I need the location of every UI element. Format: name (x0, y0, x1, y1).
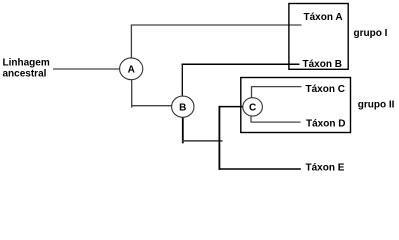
wire: bracket vertical (218, 106, 220, 170)
svg-text:ancestral: ancestral (3, 69, 47, 80)
group I box (289, 4, 348, 70)
wire: branch to Taxon A (131, 24, 302, 26)
svg-text:Táxon D: Táxon D (306, 119, 345, 130)
node C (243, 98, 263, 116)
svg-text:Táxon A: Táxon A (304, 12, 343, 23)
svg-text:B: B (179, 102, 186, 113)
svg-text:grupo I: grupo I (354, 28, 388, 39)
group II box (241, 78, 351, 133)
svg-text:Linhagem: Linhagem (3, 57, 50, 68)
wire: node B down (182, 117, 184, 143)
wire: branch to Taxon C (251, 86, 302, 88)
wire: Linhagem ancestral to node A (53, 68, 120, 70)
label "Linhagem ancestral" (3, 57, 50, 79)
wire: branch to Taxon D (251, 121, 301, 123)
svg-text:grupo II: grupo II (358, 99, 395, 110)
svg-text:Táxon E: Táxon E (306, 163, 345, 174)
wire: bracket to node C (219, 106, 243, 108)
svg-text:C: C (249, 103, 256, 114)
node A (120, 58, 143, 80)
wire: node C up stub (251, 87, 253, 98)
wire: Taxon B corner down to node B (181, 64, 183, 96)
wire: node C down stub (250, 116, 252, 122)
wire: node A to node B (131, 105, 172, 107)
wire: node A up (130, 25, 132, 58)
svg-text:Táxon B: Táxon B (303, 59, 342, 70)
wire: branch to Taxon E (219, 168, 301, 170)
node B (172, 96, 194, 117)
wire: node B to bracket (182, 140, 223, 142)
wire: branch to Taxon B (182, 63, 300, 65)
svg-text:A: A (128, 64, 135, 75)
svg-text:Táxon C: Táxon C (306, 84, 345, 95)
wire: node A down (131, 80, 133, 108)
